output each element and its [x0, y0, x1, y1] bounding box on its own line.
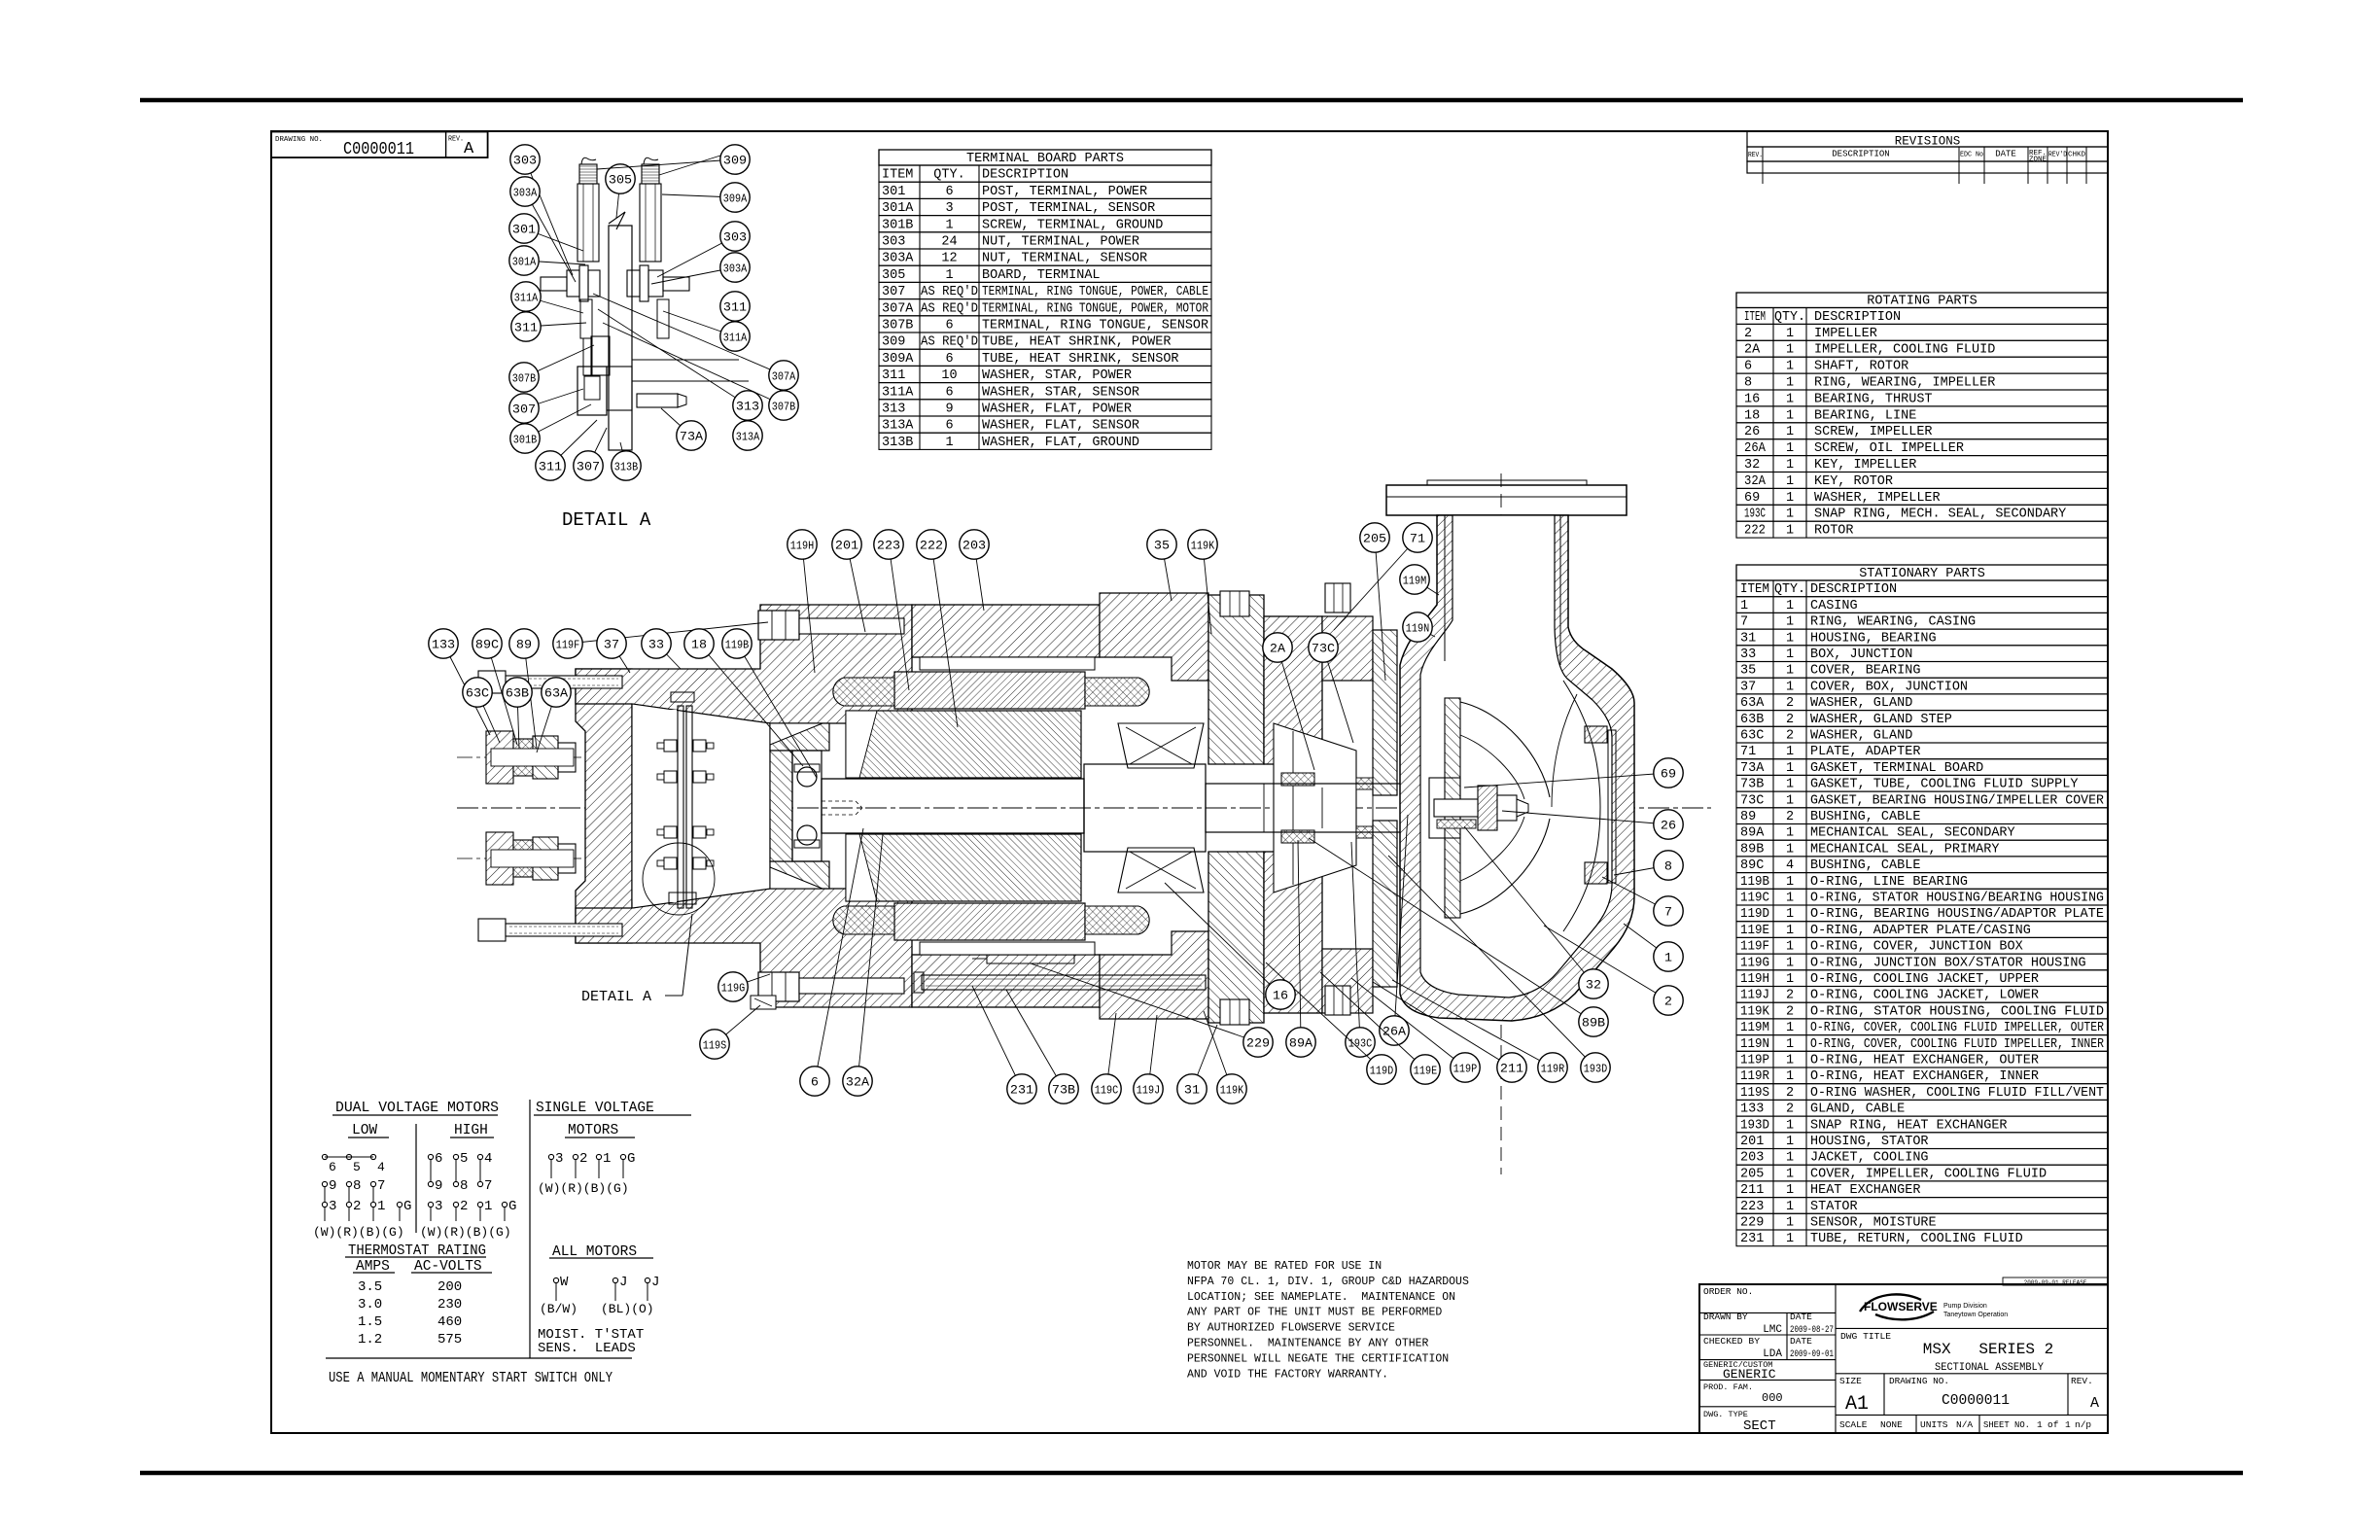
- balloon 303A: [651, 267, 735, 284]
- svg-text:O-RING, BEARING HOUSING/ADAPTO: O-RING, BEARING HOUSING/ADAPTOR PLATE: [1810, 907, 2104, 922]
- svg-text:223: 223: [877, 539, 900, 553]
- balloon 119E: [1320, 972, 1425, 1069]
- svg-text:301B: 301B: [882, 218, 913, 232]
- svg-text:SCREW, OIL IMPELLER: SCREW, OIL IMPELLER: [1814, 441, 1964, 456]
- mechanical seal 89A 89B: [1281, 773, 1314, 786]
- svg-text:UNITS: UNITS: [1920, 1419, 1948, 1430]
- impeller screw 26: [1434, 799, 1478, 817]
- svg-text:REVISIONS: REVISIONS: [1895, 135, 1961, 149]
- junction box to stator bolt 119F top: [758, 611, 799, 640]
- svg-text:2A: 2A: [1744, 343, 1761, 358]
- svg-text:REV.: REV.: [2071, 1376, 2093, 1386]
- bearing housing bolt top: [1220, 591, 1249, 616]
- svg-text:2: 2: [1664, 995, 1672, 1009]
- stator housing 201 shell bottom: [912, 955, 1100, 1007]
- svg-text:DATE: DATE: [1790, 1312, 1812, 1322]
- svg-text:1: 1: [1786, 1216, 1794, 1231]
- high voltage terminals: [428, 1154, 433, 1159]
- svg-text:119P: 119P: [1453, 1063, 1477, 1076]
- svg-text:33: 33: [1740, 647, 1756, 662]
- svg-text:307B: 307B: [512, 372, 536, 386]
- shaft right section: [1206, 784, 1439, 832]
- svg-text:32A: 32A: [1744, 474, 1767, 489]
- balloon 203: [974, 544, 984, 611]
- svg-text:NUT, TERMINAL, SENSOR: NUT, TERMINAL, SENSOR: [982, 252, 1147, 266]
- svg-text:89C: 89C: [475, 638, 499, 652]
- title block left column cells: [1699, 1312, 1836, 1313]
- svg-text:6: 6: [435, 1151, 442, 1167]
- svg-text:O-RING WASHER, COOLING FLUID F: O-RING WASHER, COOLING FLUID FILL/VENT: [1810, 1086, 2104, 1101]
- svg-text:8: 8: [460, 1178, 468, 1194]
- stator housing 201 shell top: [912, 605, 1100, 657]
- svg-text:89A: 89A: [1740, 826, 1765, 841]
- svg-text:119G: 119G: [721, 982, 745, 996]
- impeller key 32: [1437, 820, 1476, 828]
- junction box cavity: [632, 704, 770, 908]
- svg-text:200: 200: [437, 1279, 462, 1295]
- svg-text:1: 1: [1786, 425, 1794, 439]
- impeller cover cooling fluid 205 lower: [1373, 821, 1397, 987]
- svg-text:MOTORS: MOTORS: [568, 1123, 618, 1138]
- svg-text:4: 4: [484, 1151, 492, 1167]
- impeller wearing ring 8 lower: [1585, 862, 1607, 884]
- balloon 2: [1544, 926, 1668, 1000]
- svg-text:119M: 119M: [1740, 1021, 1769, 1035]
- svg-text:73C: 73C: [1740, 793, 1764, 808]
- svg-text:O-RING, COVER, COOLING FLUID I: O-RING, COVER, COOLING FLUID IMPELLER, I…: [1810, 1037, 2104, 1052]
- svg-text:Pump Division: Pump Division: [1943, 1303, 1987, 1310]
- svg-text:8: 8: [353, 1178, 361, 1194]
- svg-text:TERMINAL, RING TONGUE, SENSOR: TERMINAL, RING TONGUE, SENSOR: [982, 319, 1208, 333]
- svg-text:313: 313: [736, 400, 759, 414]
- svg-text:DETAIL A: DETAIL A: [562, 509, 651, 531]
- svg-text:307B: 307B: [772, 401, 795, 414]
- balloon 32: [1464, 826, 1593, 984]
- balloon 119P: [1351, 978, 1465, 1067]
- svg-text:BY AUTHORIZED FLOWSERVE SERVIC: BY AUTHORIZED FLOWSERVE SERVICE: [1187, 1322, 1395, 1335]
- svg-text:71: 71: [1740, 745, 1756, 759]
- svg-text:IMPELLER, COOLING FLUID: IMPELLER, COOLING FLUID: [1814, 343, 1995, 358]
- balloon 119S: [715, 1005, 760, 1044]
- svg-text:HOUSING, STATOR: HOUSING, STATOR: [1810, 1135, 1929, 1149]
- svg-text:1: 1: [1786, 924, 1794, 938]
- balloon 119F: [568, 622, 768, 644]
- suction channel inner wall arcs: [1563, 681, 1600, 931]
- svg-text:1: 1: [1786, 793, 1794, 808]
- svg-text:119P: 119P: [1740, 1054, 1769, 1068]
- svg-text:RING, WEARING, CASING: RING, WEARING, CASING: [1810, 615, 1976, 630]
- balloon 301: [524, 228, 583, 251]
- svg-text:PROD. FAM.: PROD. FAM.: [1703, 1382, 1753, 1392]
- balloon 7: [1602, 877, 1668, 911]
- cooling jacket 203 bottom: [920, 942, 1095, 955]
- scale units sheet row: [1836, 1414, 2108, 1416]
- svg-text:313A: 313A: [736, 431, 760, 444]
- svg-text:89: 89: [516, 638, 532, 652]
- svg-text:89: 89: [1740, 810, 1756, 824]
- svg-text:119B: 119B: [1740, 875, 1769, 890]
- svg-text:BUSHING, CABLE: BUSHING, CABLE: [1810, 810, 1920, 824]
- svg-text:n/p: n/p: [2075, 1419, 2091, 1430]
- balloon 119K: [1204, 1011, 1232, 1089]
- bearing housing 31 upper: [1208, 595, 1264, 764]
- svg-text:W: W: [560, 1275, 569, 1290]
- svg-text:GASKET, BEARING HOUSING/IMPELL: GASKET, BEARING HOUSING/IMPELLER COVER: [1810, 793, 2104, 808]
- gasket 73A lines: [632, 359, 739, 361]
- svg-text:1: 1: [1786, 343, 1794, 358]
- svg-text:DRAWN BY: DRAWN BY: [1703, 1312, 1748, 1322]
- balloon 201: [847, 544, 865, 632]
- svg-text:229: 229: [1246, 1036, 1270, 1051]
- balloon 32A: [857, 834, 883, 1081]
- svg-text:119D: 119D: [1740, 907, 1769, 922]
- balloon 313A: [733, 421, 762, 450]
- svg-text:1: 1: [1786, 892, 1794, 906]
- svg-text:6: 6: [329, 1160, 336, 1174]
- svg-text:89B: 89B: [1740, 842, 1764, 857]
- balloon 2A: [1277, 647, 1314, 770]
- revisions table: [1747, 131, 2108, 147]
- svg-text:37: 37: [1740, 680, 1756, 694]
- star washer stack 311 left: [580, 299, 592, 338]
- balloon 313B: [620, 442, 626, 466]
- svg-text:1: 1: [1786, 826, 1794, 841]
- svg-text:6: 6: [811, 1075, 819, 1090]
- svg-text:REV.: REV.: [1748, 152, 1763, 159]
- svg-text:575: 575: [437, 1332, 462, 1347]
- svg-text:GASKET, TUBE, COOLING FLUID SU: GASKET, TUBE, COOLING FLUID SUPPLY: [1810, 778, 2078, 792]
- svg-text:2: 2: [1786, 1102, 1794, 1117]
- svg-text:J: J: [651, 1275, 659, 1290]
- svg-text:USE A MANUAL MOMENTARY START S: USE A MANUAL MOMENTARY START SWITCH ONLY: [329, 1371, 612, 1386]
- svg-text:193D: 193D: [1584, 1063, 1607, 1076]
- balloon 309: [597, 159, 735, 169]
- svg-text:7: 7: [1664, 905, 1672, 920]
- svg-text:203: 203: [962, 539, 986, 553]
- balloon 307B: [603, 323, 784, 405]
- svg-text:O-RING, HEAT EXCHANGER, INNER: O-RING, HEAT EXCHANGER, INNER: [1810, 1069, 2039, 1084]
- svg-text:133: 133: [432, 638, 455, 652]
- svg-text:POST, TERMINAL, SENSOR: POST, TERMINAL, SENSOR: [982, 201, 1155, 216]
- svg-text:301: 301: [512, 223, 536, 237]
- impeller washer 69: [1478, 786, 1497, 830]
- svg-text:1: 1: [1786, 1151, 1794, 1166]
- balloon 26: [1502, 811, 1668, 824]
- svg-text:8: 8: [1664, 859, 1672, 874]
- svg-text:16: 16: [1273, 989, 1288, 1003]
- svg-text:2009-09-01: 2009-09-01: [1790, 1348, 1834, 1360]
- svg-text:303: 303: [513, 154, 537, 168]
- svg-text:1: 1: [1664, 951, 1672, 965]
- svg-text:A: A: [464, 140, 474, 158]
- svg-text:TUBE, RETURN, COOLING FLUID: TUBE, RETURN, COOLING FLUID: [1810, 1232, 2023, 1246]
- svg-text:1: 1: [1786, 441, 1794, 456]
- detail A terminal board 305: [609, 212, 625, 224]
- discharge pipe inner walls: [1444, 515, 1446, 661]
- svg-text:LOW: LOW: [352, 1123, 377, 1138]
- svg-text:1: 1: [1786, 778, 1794, 792]
- svg-text:ORDER NO.: ORDER NO.: [1703, 1286, 1753, 1297]
- svg-text:26: 26: [1744, 425, 1760, 439]
- svg-text:MSX SERIES 2: MSX SERIES 2: [1923, 1341, 2053, 1358]
- terminal board parts table: [879, 150, 1211, 165]
- balloon 229: [1031, 963, 1258, 1042]
- svg-text:6: 6: [945, 185, 953, 199]
- svg-text:O-RING, ADAPTER PLATE/CASING: O-RING, ADAPTER PLATE/CASING: [1810, 924, 2031, 938]
- balloon 119G: [733, 974, 770, 987]
- svg-text:119B: 119B: [725, 639, 749, 652]
- svg-text:3: 3: [435, 1199, 442, 1214]
- main centerline: [457, 807, 1711, 809]
- svg-text:119E: 119E: [1740, 924, 1769, 938]
- svg-text:2009-08-27: 2009-08-27: [1790, 1324, 1834, 1336]
- svg-text:119R: 119R: [1740, 1069, 1769, 1084]
- svg-text:DWG TITLE: DWG TITLE: [1840, 1331, 1891, 1342]
- svg-text:313B: 313B: [614, 461, 638, 474]
- svg-text:307B: 307B: [882, 319, 913, 333]
- svg-text:TERMINAL BOARD PARTS: TERMINAL BOARD PARTS: [966, 152, 1124, 166]
- svg-text:1: 1: [1786, 1167, 1794, 1181]
- svg-text:G: G: [508, 1199, 516, 1214]
- svg-text:WASHER, FLAT, GROUND: WASHER, FLAT, GROUND: [982, 436, 1139, 450]
- svg-text:BUSHING, CABLE: BUSHING, CABLE: [1810, 858, 1920, 873]
- flowserve logo: [1860, 1294, 1938, 1319]
- svg-text:35: 35: [1154, 539, 1170, 553]
- star washer stack 311A right: [657, 299, 669, 338]
- svg-text:119E: 119E: [1414, 1065, 1437, 1078]
- svg-text:311: 311: [539, 460, 562, 474]
- svg-text:31: 31: [1184, 1083, 1200, 1098]
- svg-text:3.5: 3.5: [358, 1279, 382, 1295]
- svg-text:119R: 119R: [1541, 1063, 1564, 1076]
- single voltage terminals: [548, 1154, 553, 1159]
- balloon 301A: [524, 261, 585, 264]
- svg-text:2: 2: [1786, 989, 1794, 1003]
- svg-text:89B: 89B: [1582, 1016, 1605, 1031]
- balloon 35: [1162, 544, 1172, 601]
- thrust bearing 16 upper: [1118, 723, 1204, 768]
- svg-text:(W)(R)(B)(G): (W)(R)(B)(G): [538, 1181, 629, 1196]
- svg-text:DATE: DATE: [1790, 1336, 1812, 1347]
- svg-text:1: 1: [1786, 664, 1794, 679]
- svg-text:32A: 32A: [846, 1075, 869, 1090]
- svg-text:O-RING, LINE BEARING: O-RING, LINE BEARING: [1810, 875, 1968, 890]
- svg-text:2: 2: [1744, 327, 1752, 341]
- balloon 119J: [1148, 1015, 1157, 1089]
- svg-text:ZONE: ZONE: [2029, 157, 2047, 164]
- all motors terminals: [553, 1277, 558, 1282]
- svg-text:CASING: CASING: [1810, 599, 1858, 613]
- svg-text:HIGH: HIGH: [454, 1123, 488, 1138]
- svg-text:9: 9: [435, 1178, 442, 1194]
- svg-text:193C: 193C: [1744, 507, 1766, 522]
- divider dual/single: [529, 1100, 531, 1358]
- balloon 311A: [526, 297, 583, 313]
- svg-text:SENSOR, MOISTURE: SENSOR, MOISTURE: [1810, 1216, 1937, 1231]
- svg-text:119J: 119J: [1740, 989, 1769, 1003]
- svg-text:STATIONARY PARTS: STATIONARY PARTS: [1859, 567, 1985, 581]
- svg-text:26A: 26A: [1382, 1025, 1406, 1039]
- stator winding end right top: [1085, 678, 1149, 706]
- svg-text:A1: A1: [1845, 1393, 1869, 1416]
- svg-text:1: 1: [1740, 599, 1748, 613]
- svg-text:CHECKED BY: CHECKED BY: [1703, 1336, 1760, 1347]
- balloon 119R: [1392, 980, 1553, 1067]
- balloon 63A: [537, 692, 556, 752]
- svg-text:63A: 63A: [1740, 696, 1765, 711]
- svg-text:1: 1: [945, 218, 953, 232]
- svg-text:309: 309: [723, 154, 747, 168]
- svg-text:203: 203: [1740, 1151, 1764, 1166]
- svg-text:133: 133: [1740, 1102, 1764, 1117]
- svg-text:ITEM: ITEM: [1744, 310, 1766, 325]
- svg-text:1: 1: [1786, 940, 1794, 955]
- svg-text:1: 1: [1786, 392, 1794, 406]
- svg-text:KEY, ROTOR: KEY, ROTOR: [1814, 474, 1893, 489]
- svg-text:307A: 307A: [772, 370, 796, 384]
- svg-text:1: 1: [1786, 956, 1794, 970]
- svg-text:2: 2: [1786, 1004, 1794, 1019]
- svg-text:TERMINAL, RING TONGUE, POWER,: TERMINAL, RING TONGUE, POWER, CABLE: [982, 285, 1208, 299]
- svg-text:313B: 313B: [882, 436, 913, 450]
- balloon 119D: [1266, 962, 1382, 1069]
- balloon 119M: [1415, 579, 1439, 595]
- svg-text:73A: 73A: [680, 430, 703, 444]
- balloon 305: [616, 179, 620, 218]
- balloon 119H: [802, 544, 815, 673]
- svg-text:ITEM: ITEM: [882, 168, 913, 183]
- svg-text:1: 1: [603, 1151, 611, 1167]
- svg-text:WASHER, STAR, POWER: WASHER, STAR, POWER: [982, 368, 1132, 383]
- svg-text:1: 1: [945, 268, 953, 283]
- page bottom border line: [140, 1471, 2243, 1476]
- svg-text:2: 2: [1786, 713, 1794, 727]
- svg-text:305: 305: [882, 268, 905, 283]
- svg-text:119J: 119J: [1137, 1084, 1160, 1098]
- svg-text:303A: 303A: [882, 252, 914, 266]
- balloon 301B: [525, 404, 591, 438]
- svg-text:1: 1: [1786, 458, 1794, 472]
- svg-text:AS REQ'D: AS REQ'D: [921, 285, 978, 299]
- balloon 63C: [477, 692, 500, 743]
- adapter plate bolt bottom: [1325, 986, 1350, 1015]
- svg-text:301A: 301A: [512, 256, 537, 269]
- size drawing-no rev row: [1836, 1373, 2108, 1375]
- svg-text:1: 1: [1786, 615, 1794, 630]
- svg-text:(B/W): (B/W): [540, 1302, 577, 1316]
- svg-text:1: 1: [1786, 972, 1794, 987]
- svg-text:DESCRIPTION: DESCRIPTION: [1832, 150, 1889, 159]
- svg-text:89A: 89A: [1289, 1036, 1312, 1051]
- svg-text:KEY, IMPELLER: KEY, IMPELLER: [1814, 458, 1916, 472]
- power nut stack left 303: [567, 270, 579, 297]
- balloon 307B: [524, 345, 594, 377]
- svg-text:1: 1: [1786, 1021, 1794, 1035]
- balloon 311: [526, 323, 586, 327]
- svg-text:1.2: 1.2: [358, 1332, 382, 1347]
- svg-text:PERSONNEL. MAINTENANCE BY ANY: PERSONNEL. MAINTENANCE BY ANY OTHER: [1187, 1338, 1429, 1350]
- svg-text:1: 1: [1786, 647, 1794, 662]
- svg-text:1: 1: [1786, 376, 1794, 391]
- svg-text:G: G: [403, 1199, 411, 1214]
- terminal through-stud left: [541, 277, 567, 291]
- svg-text:LMC: LMC: [1763, 1324, 1782, 1336]
- svg-text:HEAT EXCHANGER: HEAT EXCHANGER: [1810, 1183, 1920, 1198]
- svg-text:1: 1: [1786, 907, 1794, 922]
- svg-text:8: 8: [1744, 376, 1752, 391]
- svg-text:SENS. LEADS: SENS. LEADS: [538, 1341, 636, 1356]
- cooling jacket 203 top: [920, 657, 1095, 670]
- balloon 71: [1334, 538, 1417, 630]
- terminal 307 block bottom left: [577, 367, 607, 415]
- svg-text:SNAP RING, MECH. SEAL, SECONDA: SNAP RING, MECH. SEAL, SECONDARY: [1814, 507, 2066, 522]
- svg-text:309A: 309A: [723, 192, 748, 206]
- svg-text:DESCRIPTION: DESCRIPTION: [1814, 310, 1901, 325]
- svg-text:O-RING, COVER, COOLING FLUID I: O-RING, COVER, COOLING FLUID IMPELLER, O…: [1810, 1021, 2104, 1035]
- svg-text:6: 6: [945, 419, 953, 434]
- svg-text:6: 6: [945, 352, 953, 367]
- svg-text:GASKET, TERMINAL BOARD: GASKET, TERMINAL BOARD: [1810, 761, 1983, 776]
- svg-text:69: 69: [1661, 767, 1676, 782]
- svg-text:SECT: SECT: [1743, 1418, 1776, 1434]
- cable gland assembly upper 133: [457, 756, 601, 758]
- divider low/high: [415, 1124, 417, 1233]
- balloon 31: [1192, 1025, 1217, 1089]
- svg-text:205: 205: [1740, 1167, 1764, 1181]
- svg-text:000: 000: [1762, 1391, 1783, 1405]
- balloon 119K: [1203, 544, 1211, 634]
- balloon 205: [1375, 538, 1385, 681]
- svg-text:PLATE, ADAPTER: PLATE, ADAPTER: [1810, 745, 1920, 759]
- stator winding end left top: [833, 678, 894, 706]
- motor end cap top 35: [1100, 593, 1208, 681]
- svg-text:32: 32: [1744, 458, 1760, 472]
- impeller 2 disc: [1445, 698, 1460, 918]
- svg-text:HOUSING, BEARING: HOUSING, BEARING: [1810, 631, 1937, 646]
- main drawing border: [271, 131, 2108, 1433]
- svg-text:DRAWING NO.: DRAWING NO.: [275, 136, 323, 144]
- svg-text:31: 31: [1740, 631, 1756, 646]
- svg-text:73B: 73B: [1052, 1083, 1075, 1098]
- svg-text:303: 303: [882, 235, 905, 250]
- svg-text:1: 1: [1786, 842, 1794, 857]
- svg-text:WASHER, FLAT, POWER: WASHER, FLAT, POWER: [982, 402, 1132, 417]
- balloon 18: [699, 644, 803, 766]
- moisture sensor 229: [987, 955, 1074, 963]
- svg-text:63C: 63C: [1740, 729, 1764, 744]
- svg-text:1: 1: [1786, 474, 1794, 489]
- svg-text:311: 311: [514, 321, 538, 335]
- svg-text:QTY.: QTY.: [1774, 582, 1805, 597]
- balloon 73C: [1323, 647, 1353, 743]
- balloon 303: [525, 159, 573, 275]
- junction box 33 bottom wall: [576, 889, 912, 1007]
- wearing ring strip: [1608, 730, 1616, 883]
- thrust bearing collar: [1084, 764, 1206, 852]
- svg-text:193C: 193C: [1348, 1037, 1372, 1051]
- svg-text:119N: 119N: [1740, 1037, 1769, 1052]
- svg-text:C0000011: C0000011: [343, 140, 414, 159]
- svg-text:33: 33: [648, 638, 664, 652]
- svg-text:63A: 63A: [544, 686, 568, 701]
- balloon 16: [1165, 883, 1280, 995]
- svg-text:1: 1: [1786, 1054, 1794, 1068]
- motor note separator line: [326, 1357, 632, 1359]
- ground washer 313B: [607, 367, 632, 410]
- svg-text:311: 311: [882, 368, 905, 383]
- svg-text:POST, TERMINAL, POWER: POST, TERMINAL, POWER: [982, 185, 1147, 199]
- junction box 33 top wall: [576, 605, 912, 723]
